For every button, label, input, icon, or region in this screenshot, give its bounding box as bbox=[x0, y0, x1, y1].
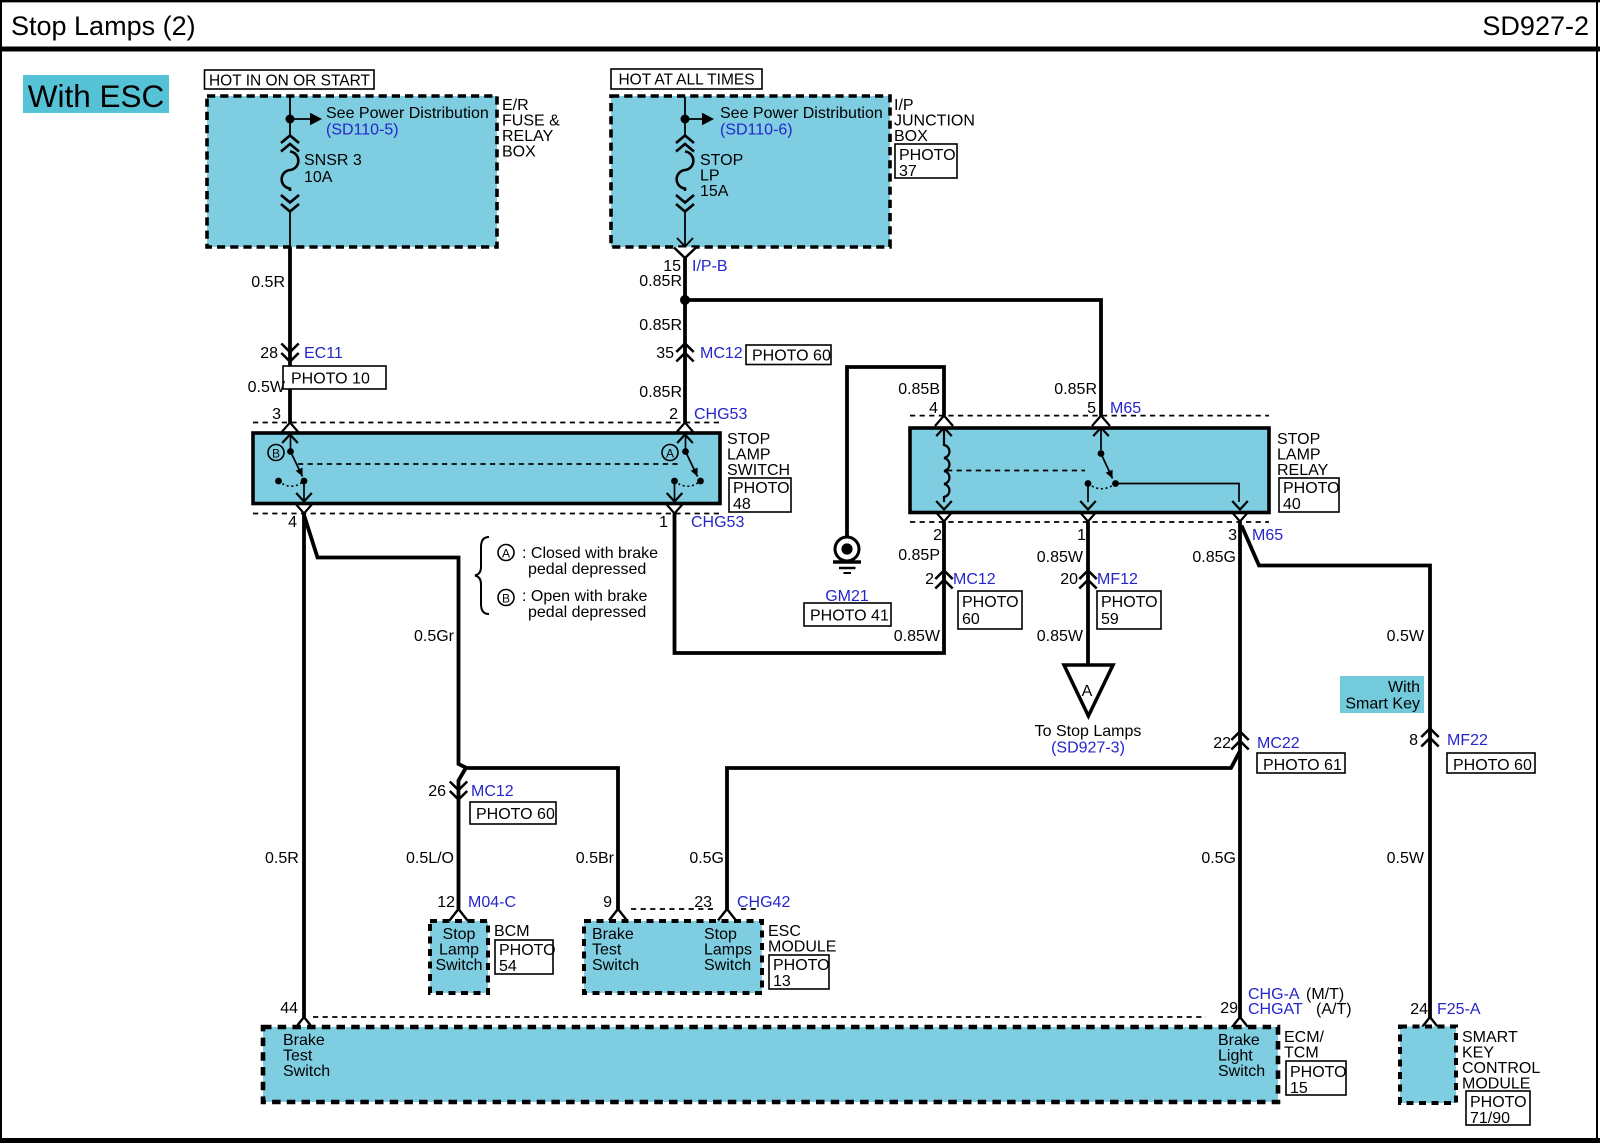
svg-text:FUSE &: FUSE & bbox=[502, 113, 560, 130]
ECM/TCM box brake test switch / brake light switch bbox=[263, 1027, 1325, 1102]
svg-text:3: 3 bbox=[272, 406, 281, 423]
svg-text:0.85W: 0.85W bbox=[1037, 549, 1084, 566]
svg-text:BOX: BOX bbox=[502, 144, 536, 161]
switch mechanical link dashed bbox=[298, 463, 681, 465]
svg-text:pedal depressed: pedal depressed bbox=[528, 561, 646, 578]
connector MC22 pin 22 bbox=[1213, 732, 1300, 753]
svg-text:Light: Light bbox=[1218, 1048, 1253, 1065]
svg-text:10A: 10A bbox=[304, 169, 333, 186]
relay internal dashed link bbox=[947, 470, 1085, 472]
svg-text:(SD110-5): (SD110-5) bbox=[326, 122, 399, 139]
photo 48 box bbox=[729, 478, 791, 513]
with smart key label bbox=[1340, 676, 1424, 713]
svg-text:0.5W: 0.5W bbox=[248, 379, 286, 396]
svg-text:0.85R: 0.85R bbox=[1054, 381, 1097, 398]
HOT AT ALL TIMES label bbox=[611, 69, 762, 89]
wire 0.5Gr branch bbox=[304, 515, 618, 909]
svg-text:BCM: BCM bbox=[494, 923, 530, 940]
svg-text:0.5R: 0.5R bbox=[265, 850, 299, 867]
svg-text:0.85R: 0.85R bbox=[639, 384, 682, 401]
svg-text:pedal depressed: pedal depressed bbox=[528, 604, 646, 621]
svg-text:PHOTO 41: PHOTO 41 bbox=[810, 608, 889, 625]
svg-text:MC12: MC12 bbox=[471, 783, 514, 800]
svg-text:29: 29 bbox=[1220, 1000, 1238, 1017]
connector MC12 pin 26 bbox=[428, 782, 514, 801]
svg-text:0.5G: 0.5G bbox=[1201, 850, 1236, 867]
svg-text:PHOTO 60: PHOTO 60 bbox=[752, 348, 831, 365]
switch contact A bbox=[662, 433, 704, 502]
svg-text:SD927-2: SD927-2 bbox=[1482, 11, 1589, 41]
svg-text:(SD927-3): (SD927-3) bbox=[1051, 740, 1125, 757]
svg-text:Stop Lamps (2): Stop Lamps (2) bbox=[11, 11, 196, 41]
svg-text:CHG53: CHG53 bbox=[691, 514, 744, 531]
photo 59 box bbox=[1097, 591, 1161, 629]
svg-text:60: 60 bbox=[962, 611, 980, 628]
svg-text:9: 9 bbox=[603, 894, 612, 911]
svg-text:I/P: I/P bbox=[894, 97, 914, 114]
svg-text:CONTROL: CONTROL bbox=[1462, 1060, 1540, 1077]
svg-text:0.85P: 0.85P bbox=[898, 547, 940, 564]
svg-text:Brake: Brake bbox=[283, 1032, 325, 1049]
svg-text:: Open with brake: : Open with brake bbox=[522, 588, 648, 605]
smart key control module box bbox=[1400, 1027, 1540, 1104]
terminal 1 bbox=[1077, 501, 1097, 544]
svg-text:MF22: MF22 bbox=[1447, 732, 1488, 749]
svg-text:STOP: STOP bbox=[700, 152, 743, 169]
svg-text:F25-A: F25-A bbox=[1437, 1001, 1481, 1018]
svg-text:SNSR 3: SNSR 3 bbox=[304, 152, 362, 169]
svg-text:26: 26 bbox=[428, 783, 446, 800]
svg-text:PHOTO: PHOTO bbox=[1470, 1094, 1527, 1111]
photo 60 box bbox=[958, 591, 1022, 629]
svg-text:2: 2 bbox=[933, 527, 942, 544]
svg-text:PHOTO: PHOTO bbox=[499, 942, 556, 959]
pin 29 CHG-A / CHGAT bbox=[1220, 986, 1351, 1018]
terminal 3 bbox=[281, 423, 299, 444]
svg-text:Switch: Switch bbox=[1218, 1063, 1265, 1080]
svg-text:22: 22 bbox=[1213, 735, 1231, 752]
svg-text:ECM/: ECM/ bbox=[1284, 1029, 1325, 1046]
photo 13 box bbox=[769, 955, 830, 990]
svg-text:Brake: Brake bbox=[592, 926, 634, 943]
svg-text:0.5W: 0.5W bbox=[1387, 850, 1425, 867]
svg-text:23: 23 bbox=[694, 894, 712, 911]
svg-text:28: 28 bbox=[260, 345, 278, 362]
svg-text:Switch: Switch bbox=[435, 957, 482, 974]
svg-text:59: 59 bbox=[1101, 611, 1119, 628]
svg-text:PHOTO: PHOTO bbox=[1101, 594, 1158, 611]
photo 10 box bbox=[283, 366, 386, 389]
terminal 23 CHG42 bbox=[694, 894, 790, 921]
ESC module dashed connector line bbox=[631, 908, 758, 910]
BCM box bbox=[430, 921, 530, 993]
svg-text:0.5L/O: 0.5L/O bbox=[406, 850, 454, 867]
svg-text:PHOTO 60: PHOTO 60 bbox=[476, 806, 555, 823]
svg-text:M65: M65 bbox=[1110, 400, 1141, 417]
svg-text:E/R: E/R bbox=[502, 97, 529, 114]
svg-text:BOX: BOX bbox=[894, 128, 928, 145]
svg-text:PHOTO: PHOTO bbox=[962, 594, 1019, 611]
note brace bbox=[475, 537, 489, 614]
wire in I/P box bbox=[685, 97, 702, 247]
wire 0.85P / 0.85W to switch terminal 1 bbox=[675, 514, 945, 654]
svg-text:24: 24 bbox=[1410, 1001, 1428, 1018]
photo 60 box bbox=[746, 345, 831, 365]
svg-text:Stop: Stop bbox=[443, 926, 476, 943]
photo 37 box bbox=[895, 144, 957, 180]
terminal 4 bbox=[935, 416, 953, 437]
svg-text:2: 2 bbox=[669, 406, 678, 423]
bottom connector dashed line bbox=[313, 1016, 1206, 1018]
svg-text:TCM: TCM bbox=[1284, 1045, 1319, 1062]
svg-text:JUNCTION: JUNCTION bbox=[894, 113, 975, 130]
terminal 9 bbox=[609, 909, 627, 921]
svg-text:ESC: ESC bbox=[768, 923, 801, 940]
terminal 44 bbox=[295, 1017, 313, 1029]
svg-text:PHOTO: PHOTO bbox=[1283, 480, 1340, 497]
svg-text:I/P-B: I/P-B bbox=[692, 258, 728, 275]
fuse SNSR 3 10A bbox=[281, 136, 362, 212]
svg-text:0.85B: 0.85B bbox=[898, 381, 940, 398]
svg-text:See Power Distribution: See Power Distribution bbox=[326, 105, 489, 122]
svg-text:EC11: EC11 bbox=[304, 345, 343, 362]
connector MF22 pin 8 bbox=[1409, 729, 1488, 750]
svg-text:0.85W: 0.85W bbox=[894, 628, 941, 645]
terminal 29 bbox=[1231, 1017, 1249, 1029]
svg-text:20: 20 bbox=[1060, 571, 1078, 588]
svg-text:HOT AT ALL TIMES: HOT AT ALL TIMES bbox=[618, 72, 754, 89]
svg-text:Switch: Switch bbox=[592, 957, 639, 974]
svg-text:PHOTO 60: PHOTO 60 bbox=[1453, 757, 1532, 774]
photo 41 box bbox=[804, 603, 891, 626]
svg-text:12: 12 bbox=[437, 894, 455, 911]
photo 60 box bbox=[470, 802, 556, 824]
wire 0.85W relay terminal 1 to A bbox=[1037, 522, 1088, 665]
wire in E/R box bbox=[290, 97, 310, 247]
terminal 24 F25-A bbox=[1410, 1001, 1481, 1029]
terminal 1 CHG53 bbox=[659, 493, 744, 531]
svg-text:M65: M65 bbox=[1252, 527, 1283, 544]
svg-text:5: 5 bbox=[1087, 400, 1096, 417]
svg-text:PHOTO: PHOTO bbox=[899, 147, 956, 164]
svg-text:0.85W: 0.85W bbox=[1037, 628, 1084, 645]
relay switch bbox=[1085, 428, 1239, 502]
svg-text:B: B bbox=[272, 447, 280, 461]
stop lamp relay box bbox=[910, 428, 1329, 513]
svg-text:B: B bbox=[502, 592, 510, 606]
svg-text:3: 3 bbox=[1228, 527, 1237, 544]
svg-text:(SD110-6): (SD110-6) bbox=[720, 122, 793, 139]
svg-text:PHOTO: PHOTO bbox=[773, 957, 830, 974]
svg-text:8: 8 bbox=[1409, 732, 1418, 749]
photo 54 box bbox=[495, 940, 556, 975]
svg-text:SMART: SMART bbox=[1462, 1029, 1518, 1046]
svg-text:4: 4 bbox=[929, 400, 938, 417]
svg-text:With: With bbox=[1388, 679, 1420, 696]
relay connector dashed line top bbox=[910, 415, 1269, 417]
terminal 3 M65 bbox=[1228, 501, 1283, 544]
svg-text:See Power Distribution: See Power Distribution bbox=[720, 105, 883, 122]
ground GM21 bbox=[825, 537, 869, 605]
svg-text:Lamp: Lamp bbox=[439, 942, 479, 959]
svg-text:Test: Test bbox=[283, 1048, 313, 1065]
svg-text:1: 1 bbox=[659, 514, 668, 531]
wire 0.5W bbox=[248, 379, 286, 423]
wire 0.5L/O bbox=[406, 850, 516, 911]
photo 71/90 box bbox=[1466, 1091, 1530, 1127]
svg-text:LP: LP bbox=[700, 168, 720, 185]
svg-text:CHGAT: CHGAT bbox=[1248, 1001, 1303, 1018]
wire 0.85G relay terminal 3 down bbox=[1192, 522, 1240, 1018]
see power distribution arrow (SD110-5) bbox=[310, 105, 489, 139]
svg-text:Test: Test bbox=[592, 942, 622, 959]
wire 0.5W branch to MF22 bbox=[1242, 526, 1431, 1019]
see power distribution arrow (SD110-6) bbox=[702, 105, 883, 139]
svg-text:2: 2 bbox=[925, 571, 934, 588]
svg-text:15: 15 bbox=[1290, 1080, 1308, 1097]
svg-text:0.5Gr: 0.5Gr bbox=[414, 628, 455, 645]
wire 0.5Br bbox=[576, 850, 615, 911]
svg-text:0.85G: 0.85G bbox=[1192, 549, 1236, 566]
svg-text:0.5Br: 0.5Br bbox=[576, 850, 615, 867]
svg-text:RELAY: RELAY bbox=[502, 128, 554, 145]
wire 0.5G to ESC 23 bbox=[689, 751, 1240, 909]
svg-text:Switch: Switch bbox=[283, 1063, 330, 1080]
svg-text:HOT IN ON OR START: HOT IN ON OR START bbox=[209, 73, 371, 90]
svg-text:4: 4 bbox=[288, 514, 297, 531]
svg-text:LAMP: LAMP bbox=[1277, 447, 1321, 464]
svg-text:CHG42: CHG42 bbox=[737, 894, 790, 911]
svg-text:13: 13 bbox=[773, 973, 791, 990]
fuse STOP LP 15A bbox=[676, 136, 743, 212]
connector MC12 pin 35 bbox=[656, 344, 743, 363]
junction dot bbox=[680, 295, 690, 305]
relay connector dashed line bottom bbox=[910, 521, 1269, 523]
photo 15 box bbox=[1286, 1061, 1347, 1097]
svg-text:LAMP: LAMP bbox=[727, 447, 771, 464]
terminal 2 bbox=[933, 501, 953, 544]
svg-text:KEY: KEY bbox=[1462, 1045, 1494, 1062]
svg-text:MC22: MC22 bbox=[1257, 735, 1300, 752]
wire 0.85R to relay terminal 5 bbox=[685, 300, 1101, 416]
svg-text:Switch: Switch bbox=[704, 957, 751, 974]
svg-text:MC12: MC12 bbox=[700, 345, 743, 362]
svg-text:RELAY: RELAY bbox=[1277, 462, 1329, 479]
svg-text:PHOTO 61: PHOTO 61 bbox=[1263, 757, 1342, 774]
svg-text:54: 54 bbox=[499, 958, 517, 975]
stop lamp switch pin 2 CHG53 bbox=[669, 406, 747, 423]
svg-text:0.85R: 0.85R bbox=[639, 273, 682, 290]
stop lamp switch connector dashed line top bbox=[253, 422, 720, 424]
svg-text:(A/T): (A/T) bbox=[1316, 1001, 1352, 1018]
svg-text:71/90: 71/90 bbox=[1470, 1110, 1510, 1127]
svg-text:Stop: Stop bbox=[704, 926, 737, 943]
svg-text:A: A bbox=[666, 447, 674, 461]
E/R fuse & relay box bbox=[207, 96, 560, 247]
stop lamp switch connector dashed line bottom bbox=[253, 513, 720, 515]
svg-text:With ESC: With ESC bbox=[28, 78, 165, 114]
svg-text:Brake: Brake bbox=[1218, 1032, 1260, 1049]
photo 61 box bbox=[1257, 753, 1345, 774]
relay pin 5 M65 bbox=[1087, 400, 1141, 417]
junction dot bbox=[681, 115, 690, 124]
svg-text:PHOTO 10: PHOTO 10 bbox=[291, 371, 370, 388]
svg-text:0.5G: 0.5G bbox=[689, 850, 724, 867]
photo 60 box bbox=[1447, 753, 1535, 774]
svg-text:A: A bbox=[1082, 683, 1093, 700]
svg-text:MC12: MC12 bbox=[953, 571, 996, 588]
wire branch to MC12 pin 26 bbox=[459, 769, 466, 910]
wire 0.85R bbox=[639, 258, 685, 423]
photo 40 box bbox=[1279, 478, 1340, 513]
svg-text:A: A bbox=[502, 547, 510, 561]
off-page connector A to stop lamps bbox=[1035, 665, 1142, 757]
wire 0.5R to brake test switch 44 bbox=[265, 514, 304, 1018]
terminal 4 bbox=[288, 493, 313, 531]
relay coil bbox=[944, 428, 949, 502]
svg-text:0.85R: 0.85R bbox=[639, 317, 682, 334]
With ESC label bbox=[23, 75, 169, 114]
svg-text:1: 1 bbox=[1077, 527, 1086, 544]
note B open with brake pedal depressed bbox=[498, 588, 648, 621]
HOT IN ON OR START label bbox=[205, 70, 375, 90]
junction dot bbox=[286, 115, 295, 124]
svg-text:Lamps: Lamps bbox=[704, 942, 752, 959]
svg-text:MODULE: MODULE bbox=[768, 939, 836, 956]
terminal 5 bbox=[1092, 416, 1110, 437]
svg-text:Smart Key: Smart Key bbox=[1345, 696, 1420, 713]
wire 0.5R bbox=[251, 247, 290, 423]
connector EC11 pin 28 bbox=[260, 344, 343, 363]
switch contact B bbox=[268, 433, 307, 502]
svg-text:0.5R: 0.5R bbox=[251, 274, 285, 291]
svg-text:35: 35 bbox=[656, 345, 674, 362]
svg-text:To Stop Lamps: To Stop Lamps bbox=[1035, 723, 1142, 740]
terminal 15 I/P-B bbox=[663, 238, 727, 275]
svg-text:M04-C: M04-C bbox=[468, 894, 516, 911]
terminal 2 bbox=[676, 423, 694, 444]
svg-text:15A: 15A bbox=[700, 183, 729, 200]
svg-text:44: 44 bbox=[280, 1000, 298, 1017]
svg-text:48: 48 bbox=[733, 496, 751, 513]
svg-text:: Closed with brake: : Closed with brake bbox=[522, 545, 658, 562]
wire 0.85B ground wire to relay 4 bbox=[847, 367, 944, 536]
svg-text:MODULE: MODULE bbox=[1462, 1076, 1530, 1093]
terminal 12 M04-C bbox=[450, 909, 468, 921]
ESC module box bbox=[584, 921, 836, 993]
note A closed with brake pedal depressed bbox=[498, 545, 658, 579]
stop lamp switch box bbox=[253, 431, 790, 504]
connector MF12 pin 20 bbox=[1060, 571, 1138, 589]
svg-text:MF12: MF12 bbox=[1097, 571, 1138, 588]
svg-text:40: 40 bbox=[1283, 496, 1301, 513]
svg-text:CHG53: CHG53 bbox=[694, 406, 747, 423]
svg-text:0.5W: 0.5W bbox=[1387, 628, 1425, 645]
svg-text:PHOTO: PHOTO bbox=[733, 480, 790, 497]
connector MC12 pin 2 bbox=[925, 571, 996, 589]
svg-text:STOP: STOP bbox=[1277, 431, 1320, 448]
svg-text:STOP: STOP bbox=[727, 431, 770, 448]
svg-text:PHOTO: PHOTO bbox=[1290, 1064, 1347, 1081]
I/P junction box bbox=[611, 96, 975, 247]
svg-text:SWITCH: SWITCH bbox=[727, 462, 790, 479]
svg-text:37: 37 bbox=[899, 163, 917, 180]
